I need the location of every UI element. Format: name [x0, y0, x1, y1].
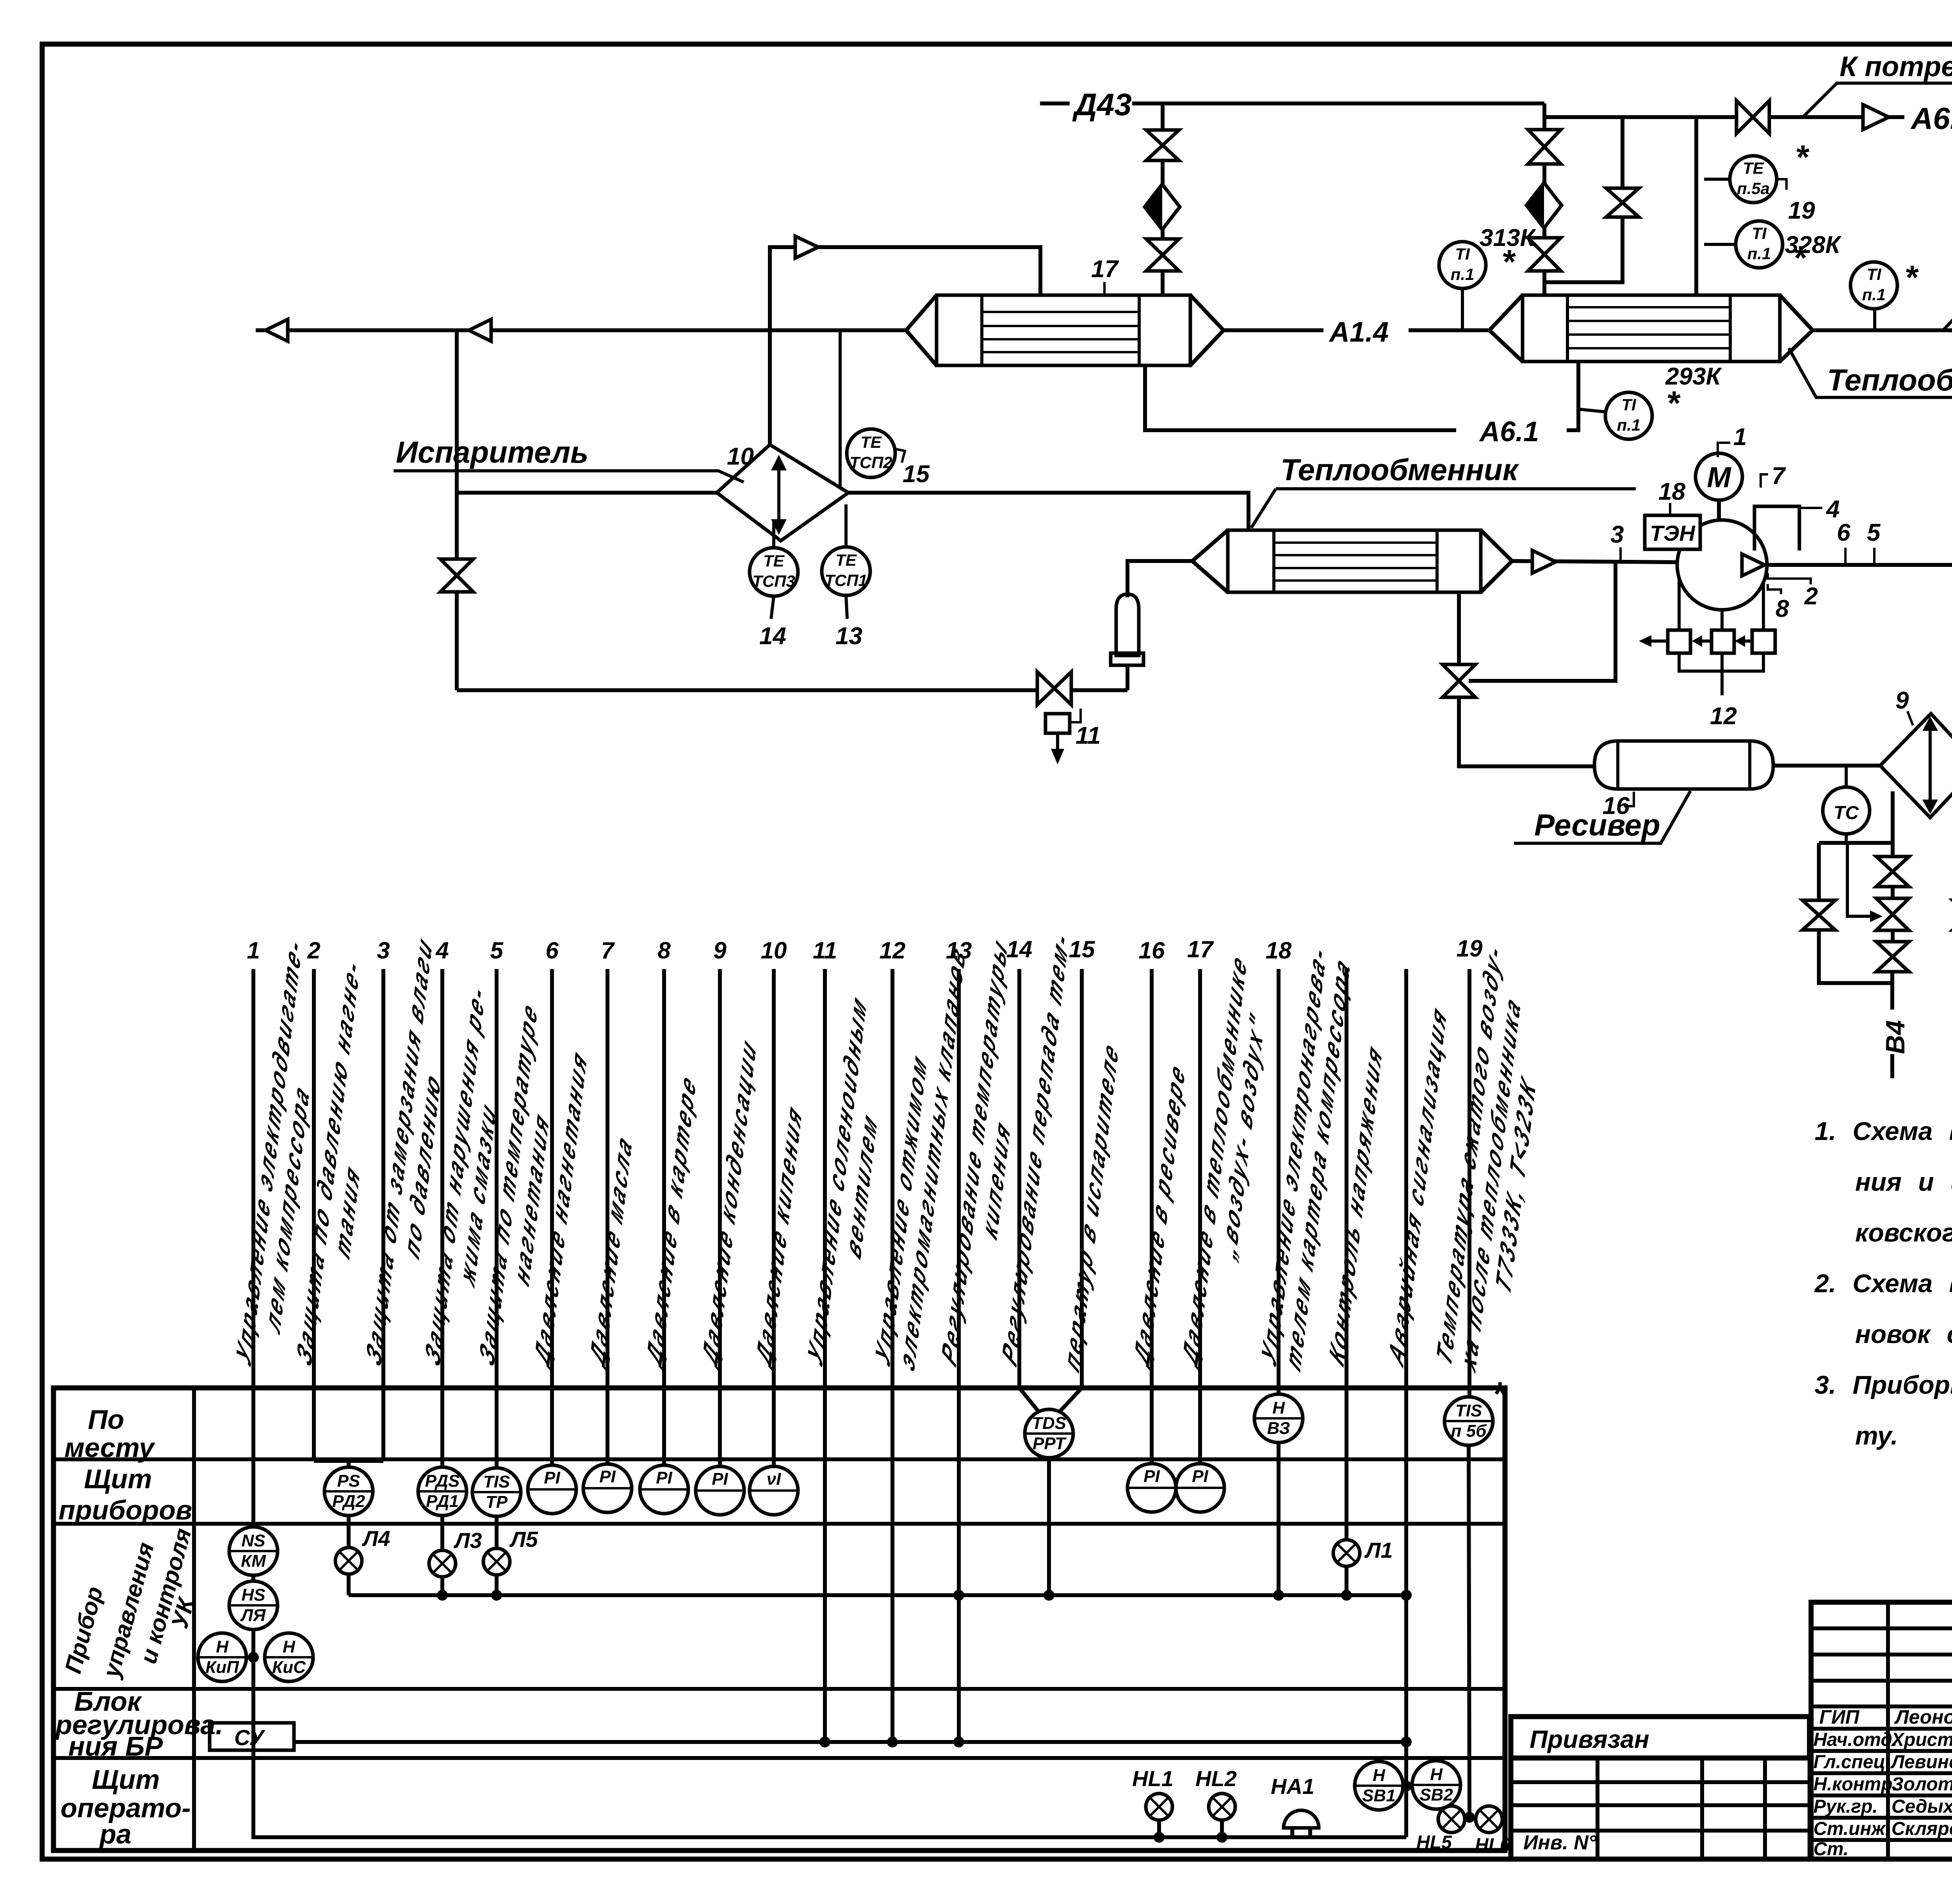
svg-text:ТI: ТI	[1621, 395, 1637, 414]
label line 8	[642, 1065, 700, 1374]
signal line 2	[312, 969, 316, 1461]
svg-text:РI: РI	[1143, 1467, 1160, 1486]
heat exchanger HX3	[1228, 530, 1481, 592]
signal line B	[1404, 969, 1408, 1837]
svg-text:*: *	[1793, 239, 1807, 277]
signal line A	[1345, 969, 1348, 1540]
svg-text:16: 16	[1139, 937, 1165, 964]
svg-text:ТЕ: ТЕ	[763, 552, 785, 570]
instrument ТЕ ТСП2	[847, 429, 895, 477]
svg-text:М: М	[1707, 461, 1731, 493]
instrument PI 6	[528, 1465, 576, 1514]
arrow on inlet	[795, 236, 818, 258]
svg-text:HL6: HL6	[1475, 1835, 1510, 1856]
instrument νI 10	[750, 1466, 798, 1515]
label line 2	[292, 949, 387, 1393]
svg-text:*: *	[1904, 259, 1919, 296]
svg-text:Щит: Щит	[84, 1464, 152, 1494]
wire B4 down	[1890, 972, 1894, 1010]
label line 1	[232, 928, 329, 1393]
svg-text:ВЗ: ВЗ	[1267, 1419, 1290, 1438]
signal line 11	[823, 969, 827, 1742]
label line 16	[1129, 1054, 1190, 1374]
svg-text:А1.4: А1.4	[1329, 317, 1389, 348]
svg-text:12: 12	[1710, 703, 1737, 730]
left accounting grid	[1509, 1758, 1514, 1859]
svg-text:Д43: Д43	[1072, 87, 1132, 122]
wire condenser left drop	[1891, 791, 1895, 857]
label line 3	[362, 928, 460, 1393]
valve V5	[1528, 238, 1561, 271]
valve V1	[1146, 130, 1179, 160]
button Н SВ1	[1355, 1762, 1403, 1810]
svg-text:Нач.отд.: Нач.отд.	[1813, 1729, 1897, 1750]
svg-text:13: 13	[835, 623, 862, 650]
wire suction into compressor	[1677, 560, 1679, 564]
instrument ТI п.1 on discharge	[1873, 308, 1876, 330]
label line 5	[475, 993, 565, 1393]
compressor circle	[1677, 520, 1767, 610]
motor M	[1717, 500, 1721, 520]
lamp HL6	[1476, 1806, 1502, 1833]
svg-text:Л5: Л5	[509, 1527, 538, 1551]
label line 12	[871, 916, 970, 1393]
signal line 6	[550, 969, 554, 1466]
svg-text:2: 2	[307, 937, 320, 964]
valve W2	[1876, 898, 1909, 930]
block СУ	[210, 1723, 294, 1750]
valve V7	[1736, 101, 1769, 134]
lamp HL1	[1146, 1794, 1172, 1820]
svg-text:Седых: Седых	[1891, 1796, 1952, 1817]
svg-text:РI: РI	[1192, 1467, 1208, 1486]
svg-text:КиС: КиС	[272, 1658, 306, 1677]
svg-text:*: *	[1666, 385, 1681, 422]
svg-text:ТСП2: ТСП2	[850, 453, 892, 472]
label line 17	[1178, 945, 1274, 1395]
instrument PI 9	[696, 1466, 744, 1515]
arrows at boxes	[1648, 639, 1668, 643]
condenser diamond 9	[1880, 714, 1952, 818]
svg-text:4: 4	[1826, 496, 1840, 523]
svg-text:А6.1: А6.1	[1479, 416, 1539, 447]
svg-text:Ст.инж.: Ст.инж.	[1813, 1819, 1890, 1839]
svg-text:ра: ра	[99, 1819, 132, 1849]
svg-text:Склярова: Склярова	[1891, 1819, 1952, 1839]
wire receiver to condenser	[1773, 764, 1880, 768]
table row line 2	[53, 1522, 1505, 1526]
svg-text:п.5а: п.5а	[1737, 179, 1770, 198]
svg-text:А6.2: А6.2	[1910, 101, 1952, 135]
label line 19	[1432, 934, 1552, 1413]
label line 10	[752, 1095, 806, 1374]
table row line 4	[53, 1756, 1505, 1760]
node 2 bracket	[1768, 573, 1811, 584]
svg-text:Н: Н	[283, 1637, 296, 1656]
signal line 9	[718, 969, 722, 1466]
svg-text:ТЭН: ТЭН	[1650, 521, 1696, 545]
svg-text:19: 19	[1457, 935, 1483, 962]
svg-text:ТI: ТI	[1867, 265, 1882, 283]
label line 11	[803, 986, 894, 1393]
svg-text:ТСП1: ТСП1	[825, 571, 867, 590]
table row line 3	[53, 1687, 1505, 1691]
svg-text:ТЕ: ТЕ	[1743, 159, 1765, 177]
svg-text:РД2: РД2	[332, 1492, 365, 1511]
svg-text:17: 17	[1187, 936, 1214, 962]
svg-text:νI: νI	[767, 1469, 781, 1489]
staff table frame	[1811, 1602, 1952, 1859]
discharge arrow	[1742, 554, 1765, 576]
svg-text:11: 11	[813, 937, 837, 964]
svg-text:РД1: РД1	[426, 1492, 459, 1511]
svg-text:Золотарева: Золотарева	[1891, 1774, 1952, 1795]
svg-text:п.1: п.1	[1451, 265, 1475, 283]
label line 7	[585, 1126, 636, 1374]
svg-text:8: 8	[1776, 595, 1789, 622]
svg-text:ТЕ: ТЕ	[860, 433, 882, 451]
table label column	[192, 1388, 196, 1851]
instrument ТI п.1 (313К)	[1461, 288, 1464, 330]
wire bypass with valve V6	[1544, 117, 1623, 282]
valve W3	[1876, 942, 1909, 972]
instrument Н КиС	[265, 1633, 313, 1681]
svg-text:Испаритель: Испаритель	[396, 435, 588, 469]
instrument ТI п.1 (293К)	[1578, 409, 1606, 412]
svg-text:HL1: HL1	[1132, 1766, 1174, 1791]
svg-text:Теплообменник: Теплообменник	[1281, 452, 1519, 487]
instrument HS ПЯ	[229, 1581, 278, 1630]
lamp Л4	[335, 1548, 362, 1574]
svg-text:3: 3	[1610, 521, 1624, 548]
label line 4	[420, 975, 513, 1393]
svg-text:РI: РI	[544, 1468, 560, 1487]
svg-text:6: 6	[545, 937, 559, 964]
svg-text:ГИП: ГИП	[1819, 1706, 1860, 1728]
svg-text:Христофоров: Христофоров	[1890, 1729, 1952, 1750]
svg-text:ТI: ТI	[1455, 245, 1470, 263]
svg-text:2: 2	[1804, 583, 1818, 610]
signal line 14	[1019, 969, 1038, 1411]
table frame	[53, 1388, 1505, 1851]
filter F1	[1145, 184, 1180, 230]
svg-text:Левинский: Левинский	[1890, 1752, 1952, 1772]
instrument NS КМ	[229, 1527, 278, 1575]
svg-text:ТЕ: ТЕ	[835, 551, 857, 569]
horn HA1	[1284, 1810, 1319, 1828]
svg-text:15: 15	[1069, 936, 1095, 962]
label line 9	[698, 1029, 760, 1374]
signal line 12	[891, 969, 894, 1742]
valve W4	[1802, 900, 1835, 930]
svg-text:КМ: КМ	[241, 1551, 266, 1571]
wire evap to HX3	[848, 493, 1248, 530]
svg-text:19: 19	[1788, 197, 1815, 224]
valve ТРВ	[1037, 672, 1071, 705]
unloader box 4	[1754, 506, 1799, 550]
wire branch2 down	[1542, 103, 1546, 295]
wire top-right header	[1544, 117, 1696, 295]
svg-text:Л4: Л4	[362, 1526, 390, 1551]
svg-text:Гл.спец.: Гл.спец.	[1813, 1752, 1891, 1772]
instrument РДS РД1	[418, 1467, 467, 1516]
wire under boxes	[1679, 653, 1763, 671]
svg-text:Н: Н	[1373, 1766, 1386, 1785]
svg-text:15: 15	[903, 461, 930, 488]
svg-text:1: 1	[247, 937, 260, 964]
lamp Л3	[429, 1550, 456, 1577]
svg-text:РI: РI	[712, 1469, 728, 1489]
signal line 3	[381, 969, 385, 1461]
table row line 1	[53, 1457, 1505, 1461]
node 8 bracket	[1768, 584, 1781, 594]
label line A	[1325, 1035, 1387, 1372]
filter F2	[1526, 183, 1562, 228]
arrow A6.2	[1863, 105, 1889, 130]
svg-text:РS: РS	[337, 1471, 360, 1491]
signal line 15	[1060, 969, 1082, 1411]
wire evaporator to HX1 top	[770, 247, 1040, 445]
signal line 13	[957, 969, 961, 1742]
instrument ТI п.1 (328К)	[1704, 243, 1736, 246]
receiver vessel	[1594, 741, 1773, 789]
lamp Л5	[483, 1548, 510, 1575]
svg-text:РРТ: РРТ	[1033, 1434, 1067, 1453]
heater ТЭН	[1645, 515, 1700, 549]
svg-text:HL2: HL2	[1195, 1766, 1237, 1791]
instrument ТС	[1845, 766, 1848, 787]
wire discharge line	[1766, 565, 1952, 766]
svg-text:4: 4	[435, 937, 449, 964]
svg-text:РI: РI	[656, 1468, 672, 1487]
signal line 18	[1277, 969, 1281, 1395]
svg-text:РI: РI	[599, 1467, 616, 1486]
svg-text:СУ: СУ	[234, 1725, 265, 1750]
wire bracket lines 2-3	[314, 1459, 383, 1463]
valve V6	[1606, 188, 1639, 217]
svg-text:18: 18	[1658, 478, 1685, 505]
valve W1	[1876, 857, 1909, 887]
svg-text:п.1: п.1	[1747, 244, 1771, 263]
wire БР bus	[294, 1740, 1409, 1744]
svg-text:ковского завода „ Компрессор.": ковского завода „ Компрессор."	[1855, 1218, 1952, 1247]
svg-text:*: *	[1492, 1375, 1507, 1413]
button Н SВ2	[1412, 1761, 1460, 1809]
lamp Л1	[1333, 1540, 1360, 1566]
wire ЩО bus	[253, 1835, 1406, 1837]
svg-text:17: 17	[1091, 256, 1119, 283]
svg-text:п 5б: п 5б	[1451, 1421, 1487, 1441]
filter capsule	[1116, 594, 1139, 655]
instrument TDS PPT	[1025, 1409, 1073, 1458]
box Привязан	[1511, 1717, 1810, 1758]
wire HX1 left outlet	[256, 328, 906, 332]
svg-text:8: 8	[657, 937, 671, 964]
signal line 10	[772, 969, 776, 1466]
svg-text:ТС: ТС	[1834, 803, 1859, 823]
instrument PI 8	[640, 1465, 688, 1514]
label line 13	[937, 929, 1035, 1393]
instrument PI 7	[583, 1464, 632, 1512]
svg-text:HA1: HA1	[1271, 1774, 1314, 1799]
lamp HL5	[1438, 1806, 1465, 1833]
svg-text:9: 9	[713, 937, 727, 964]
wire HX3 inlet from capsule	[1127, 561, 1192, 597]
heat exchanger HX2 воздух-воздух right	[1523, 295, 1780, 362]
wire branch1 down	[1161, 103, 1165, 295]
instrument PS РД2	[324, 1467, 373, 1516]
svg-text:Н: Н	[1430, 1765, 1443, 1784]
svg-text:приборов: приборов	[59, 1495, 192, 1525]
node 1	[1718, 443, 1730, 457]
svg-text:3: 3	[377, 937, 390, 964]
svg-text:5: 5	[1867, 519, 1881, 546]
node К потребителю	[1803, 83, 1952, 117]
instrument Н КиП	[198, 1633, 246, 1681]
svg-text:7: 7	[1772, 463, 1786, 490]
svg-text:Леонов: Леонов	[1894, 1706, 1952, 1728]
wire evap left loop	[457, 491, 717, 495]
junction dot line1	[248, 1652, 259, 1663]
svg-text:РДS: РДS	[425, 1471, 460, 1491]
svg-text:ТDS: ТDS	[1032, 1414, 1066, 1433]
wire bottom freon line	[457, 688, 1037, 692]
wire water bus	[1819, 841, 1892, 845]
svg-text:ТI: ТI	[1752, 224, 1767, 242]
valve V8	[440, 559, 473, 592]
svg-text:ния БР: ния БР	[68, 1731, 163, 1762]
wire down to TRV line	[455, 330, 459, 690]
svg-text:Рук.гр.: Рук.гр.	[1813, 1796, 1878, 1817]
svg-text:Н: Н	[216, 1637, 229, 1656]
instrument PI 17	[1176, 1464, 1224, 1512]
svg-text:Инв. N°: Инв. N°	[1523, 1831, 1597, 1854]
svg-text:10: 10	[727, 443, 754, 470]
svg-text:ТСП3: ТСП3	[752, 572, 795, 590]
signal line 8	[662, 969, 666, 1466]
label line 15	[1060, 1033, 1123, 1378]
svg-text:Н: Н	[1272, 1398, 1285, 1418]
svg-text:ТР: ТР	[486, 1493, 508, 1512]
heat exchanger HX1 воздух-воздух left	[937, 295, 1190, 365]
lamp HL2	[1209, 1794, 1235, 1820]
instrument Н ВЗ	[1254, 1394, 1303, 1443]
svg-text:5: 5	[490, 937, 504, 964]
svg-text:1. Схема выполнена на основани: 1. Схема выполнена на основании„ Техниче…	[1815, 1117, 1952, 1145]
svg-text:*: *	[1795, 139, 1810, 176]
wire TC impulse to valve	[1847, 843, 1874, 916]
solenoid boxes under compressor	[1678, 578, 1681, 630]
svg-text:HL5: HL5	[1416, 1832, 1452, 1853]
svg-text:ния и инструкции по эксплуатац: ния и инструкции по эксплуатации I 0В 22…	[1855, 1167, 1952, 1196]
svg-text:3. Приборы, отмеченные *, зака: 3. Приборы, отмеченные *, заказываются п…	[1815, 1370, 1952, 1399]
svg-text:п.1: п.1	[1862, 285, 1886, 304]
valve V10	[1443, 664, 1475, 697]
evaporator diamond	[717, 445, 848, 541]
svg-text:NS: NS	[241, 1531, 265, 1550]
svg-text:ТIS: ТIS	[483, 1472, 510, 1491]
signal line 1	[251, 969, 255, 1835]
instrument ТЕ ТСП3	[772, 519, 775, 548]
instrument ТIS п.5б	[1444, 1397, 1493, 1445]
svg-text:SВ1: SВ1	[1362, 1786, 1396, 1805]
instrument PI 16	[1127, 1464, 1176, 1512]
wire Д43 header	[1132, 102, 1544, 105]
svg-text:Л3: Л3	[453, 1528, 482, 1553]
svg-text:КиП: КиП	[205, 1658, 239, 1677]
svg-text:Л1: Л1	[1364, 1538, 1393, 1562]
svg-text:14: 14	[759, 623, 786, 650]
svg-text:10: 10	[761, 937, 787, 964]
signal line 7	[606, 969, 609, 1466]
svg-text:НS: НS	[241, 1585, 265, 1605]
svg-text:новок осушки N2-N4/3/ схема ан: новок осушки N2-N4/3/ схема аналогична.	[1855, 1320, 1952, 1348]
svg-text:Н.контр.: Н.контр.	[1813, 1774, 1898, 1795]
wire HX3 bottom to receiver	[1457, 592, 1461, 664]
svg-text:Ст.: Ст.	[1813, 1839, 1849, 1859]
svg-text:1: 1	[1733, 424, 1747, 451]
wire А1.4	[1224, 328, 1323, 332]
node Д43 line label	[1040, 102, 1070, 105]
signal line 5	[495, 969, 499, 1468]
signal line 19	[1468, 969, 1471, 1397]
svg-text:Щит: Щит	[92, 1764, 160, 1795]
svg-text:6: 6	[1837, 519, 1850, 546]
svg-text:*: *	[1501, 243, 1516, 281]
svg-text:К потребителю: К потребителю	[1840, 51, 1952, 82]
instrument ТIS ТР	[472, 1468, 521, 1516]
label line B	[1384, 997, 1451, 1373]
wire left bypass	[1817, 843, 1821, 900]
svg-text:В4: В4	[1881, 1020, 1910, 1054]
wire ТСП2 stem	[839, 330, 842, 488]
wire УК bus	[349, 1593, 1406, 1597]
wire От компрессора stub	[1813, 328, 1952, 332]
label line 6	[530, 1041, 591, 1374]
valve V2	[1146, 239, 1179, 271]
svg-text:Привязан: Привязан	[1530, 1725, 1649, 1753]
svg-text:12: 12	[880, 937, 906, 964]
svg-text:п.1: п.1	[1617, 416, 1641, 434]
label line 18	[1257, 928, 1355, 1393]
svg-text:SВ2: SВ2	[1419, 1785, 1453, 1804]
wire HX3 outlet to compressor	[1512, 561, 1677, 562]
wire suction bypass	[1469, 562, 1615, 681]
instrument ТЕ ТСП1	[844, 504, 848, 547]
svg-text:месту: месту	[64, 1432, 155, 1463]
svg-text:ту.: ту.	[1855, 1421, 1898, 1450]
node 7	[1761, 474, 1768, 488]
svg-text:Теплообменник „ воздух- воздух: Теплообменник „ воздух- воздух"	[1827, 363, 1952, 397]
signal line 4	[440, 969, 444, 1467]
instrument ТЕ п.5а	[1704, 178, 1730, 181]
svg-text:ТIS: ТIS	[1455, 1401, 1482, 1420]
signal line 16	[1150, 969, 1154, 1464]
svg-text:7: 7	[601, 937, 615, 964]
label line 14	[997, 922, 1074, 1373]
valve V4	[1528, 130, 1561, 164]
svg-text:9: 9	[1895, 687, 1909, 714]
evaporator flow arrow	[777, 467, 780, 523]
svg-text:11: 11	[1076, 722, 1101, 749]
svg-text:18: 18	[1266, 937, 1292, 964]
wire А6.1	[1145, 365, 1456, 430]
svg-text:ЛЯ: ЛЯ	[240, 1606, 266, 1625]
wire A6.2 outlet	[1696, 115, 1862, 119]
signal line 17	[1198, 969, 1202, 1464]
svg-text:2. Схема выполнена для установ: 2. Схема выполнена для установки осушки …	[1814, 1269, 1952, 1298]
svg-text:По: По	[88, 1404, 124, 1435]
